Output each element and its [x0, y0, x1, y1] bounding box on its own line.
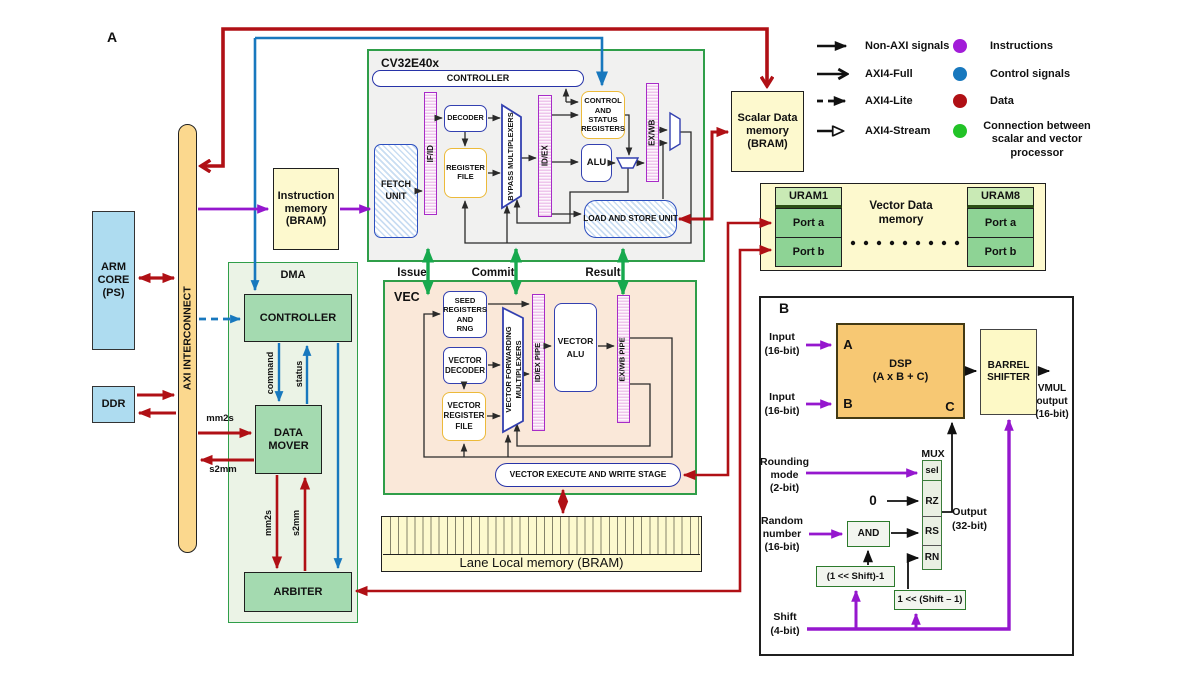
wire branch to VECTOR FORWARDING MUX left [507, 435, 509, 457]
MUX RN cell [922, 547, 942, 569]
wire purple Input to DSP B [806, 403, 831, 406]
wire CSR to CONTROLLER pill [565, 89, 567, 102]
MUX sel cell [922, 460, 942, 481]
wire purple Input to DSP A [806, 344, 831, 347]
DSP pin A [840, 337, 856, 353]
wire red mm2s AXI to DATA MOVER [198, 432, 251, 435]
VECTOR DECODER [443, 347, 487, 384]
label MUX [917, 448, 949, 461]
wire elbow to CSR [566, 101, 578, 103]
label 0 [865, 493, 881, 509]
URAM1 Port b [775, 237, 842, 267]
AXI INTERCONNECT bar [178, 124, 197, 553]
VECTOR REGISTER FILE [442, 392, 486, 441]
VECTOR ALU [554, 303, 597, 392]
label Result [580, 267, 626, 281]
legend dot Data [953, 94, 967, 108]
wire ALU to mux [612, 162, 615, 164]
LOAD AND STORE UNIT [584, 200, 677, 238]
wire branch to BYPASS bottom left [506, 206, 508, 243]
wire ID/EX PIPE to VECTOR ALU [546, 345, 551, 347]
legend label AXI4-Lite [865, 94, 985, 108]
wire LSU to right mux [663, 143, 667, 199]
ARM CORE (PS) [92, 211, 135, 350]
label Input 16-bit bottom [760, 391, 804, 418]
wire mux to EX/WB [638, 162, 644, 164]
URAM8 Port a [967, 208, 1034, 238]
label BYPASS MULTIPLEXERS [505, 107, 518, 206]
BARREL SHIFTER [980, 329, 1037, 415]
wire CSR to mux top [625, 115, 629, 155]
legend dot Instructions [953, 39, 967, 53]
MUX divider lines [922, 516, 942, 517]
SEED REGISTERS AND RNG [443, 291, 487, 338]
MUX RS cell [922, 518, 942, 545]
label Output (32-bit) [952, 506, 1008, 533]
label command [264, 343, 276, 403]
Scalar Data memory (BRAM) [731, 91, 804, 172]
wire red s2mm ARBITER to DATA MOVER [304, 478, 307, 571]
legend dot Connection [953, 124, 967, 138]
pipe EX/WB [646, 83, 659, 182]
legend label AXI4-Stream [865, 124, 985, 138]
pipe ID/EX [538, 95, 552, 217]
wire black MUX output to DSP C [942, 423, 952, 512]
green arrow Result [621, 249, 624, 294]
legend arrow AXI4-Lite [817, 100, 845, 103]
legend dot Control signals [953, 67, 967, 81]
legend label Data [990, 94, 1110, 108]
mux trapezoid VECTOR FORWARDING MULTIPLEXERS [503, 308, 523, 432]
label Shift (4-bit) [763, 611, 807, 638]
box 1 << (Shift - 1) [894, 590, 966, 610]
label status [293, 352, 305, 396]
VECTOR EXECUTE AND WRITE STAGE pill [495, 463, 681, 487]
wire DECODER to BYPASS [488, 117, 500, 119]
label Issue [392, 267, 432, 281]
wire BYPASS to ID/EX [521, 157, 536, 159]
dots between URAM1 and URAM8 [851, 241, 959, 245]
mux trapezoid BYPASS MULTIPLEXERS [502, 105, 521, 208]
green arrow Issue [426, 249, 429, 294]
pipe EX/WB PIPE [617, 295, 630, 423]
Instruction memory (BRAM) [273, 168, 339, 250]
DSP block [836, 323, 965, 419]
mux trapezoid writeback [670, 113, 680, 150]
DDR [92, 386, 135, 423]
wire purple Instruction memory to FETCH UNIT [340, 208, 370, 211]
wire black DSP to BARREL SHIFTER [966, 370, 976, 372]
Lane Local memory stripes [383, 517, 700, 555]
B section box [759, 296, 1074, 656]
Vector Data memory box [760, 183, 1046, 271]
label Commit [467, 267, 519, 281]
URAM1 header [775, 187, 842, 208]
wire REGISTER FILE to BYPASS [488, 172, 500, 174]
URAM8 Port b [967, 237, 1034, 267]
wire ID/EX to ALU [552, 161, 578, 163]
wire purple AXI to Instruction memory [198, 208, 268, 211]
label Input 16-bit top [760, 331, 804, 358]
AND gate box [847, 521, 890, 547]
legend arrow AXI4-Full [817, 73, 847, 76]
DMA DATA MOVER [255, 405, 322, 474]
wire purple Rounding mode to sel [806, 472, 917, 475]
wire red s2mm DATA MOVER to AXI [201, 459, 254, 462]
wire VEC forwarding loop [517, 384, 650, 446]
MUX column [922, 460, 942, 570]
wire blue CONTROLLER to ARBITER [337, 343, 339, 568]
DMA block [228, 262, 358, 623]
wire VFM to ID/EX PIPE [523, 373, 529, 375]
wire SEED to ID/EX PIPE [488, 303, 529, 305]
wire red mm2s DATA MOVER to ARBITER [276, 475, 279, 568]
wire red VEC pill to Port a [684, 223, 771, 475]
pipe IF/ID [424, 92, 437, 215]
wire right mux writeback to REGISTER FILE [465, 132, 691, 243]
wire red ARBITER to Port b [356, 250, 771, 591]
wire blue status DATA MOVER to CONTROLLER [306, 346, 308, 404]
wire red LSU to Scalar Data memory [679, 132, 728, 219]
MUX RZ cell [922, 487, 942, 516]
wire red pill to Lane Local memory [562, 490, 565, 513]
section label B [774, 299, 794, 317]
FETCH UNIT [374, 144, 418, 238]
wire blue dashed AXI to DMA CONTROLLER [199, 318, 240, 321]
label s2mm horizontal [203, 464, 243, 476]
ALU [581, 144, 612, 182]
wire black BARREL SHIFTER output [1038, 370, 1049, 372]
wire VECTOR ALU to EX/WB PIPE [598, 345, 614, 347]
DSP pin B [840, 396, 856, 412]
wire VEC writeback loop [424, 314, 672, 457]
CV32E40x block [367, 49, 705, 262]
wire DECODER to REGISTER FILE [464, 132, 466, 146]
wire red ARM CORE to AXI [139, 276, 174, 279]
DECODER [444, 105, 487, 132]
VEC block [383, 280, 697, 495]
wire ALU result forwarding to BYPASS [517, 168, 628, 223]
wire FETCH to IF/ID [418, 190, 422, 192]
pipe ID/EX PIPE [532, 294, 545, 431]
wire black AND to RS [891, 532, 918, 534]
wire branch to VECTOR REGISTER FILE [463, 444, 465, 457]
Lane Local memory (BRAM) [381, 516, 702, 572]
wire purple branch to (1 << Shift)-1 [855, 591, 858, 629]
REGISTER FILE [444, 148, 487, 198]
label VECTOR FORWARDING MULTIPLEXERS [503, 310, 524, 429]
URAM8 header [967, 187, 1034, 208]
legend label Connection between scalar and vector processor [975, 119, 1099, 161]
wire purple Shift bus to BARREL SHIFTER [807, 420, 1009, 629]
CONTROL AND STATUS REGISTERS [581, 91, 625, 139]
wire blue command CONTROLLER to DATA MOVER [278, 343, 280, 401]
CONTROLLER pill [372, 70, 584, 87]
label mm2s horizontal [200, 413, 240, 425]
wire blue top to CSR [255, 38, 602, 85]
green arrow Commit [514, 249, 517, 294]
DMA ARBITER [244, 572, 352, 612]
wire VECTOR DECODER to VRF [463, 385, 465, 389]
wire VRF to VFM [487, 415, 500, 417]
box (1 << Shift)-1 [816, 566, 895, 587]
section label A [100, 28, 124, 46]
wire red AXI to Scalar Data memory top [201, 29, 767, 166]
legend label Control signals [990, 67, 1110, 81]
Vector Data memory label [845, 198, 957, 230]
wire IF/ID to DECODER [437, 117, 442, 119]
Lane Local memory label [381, 555, 702, 571]
legend arrow Non-AXI signals [817, 45, 846, 48]
label s2mm vertical [290, 503, 302, 543]
wire EX/WB to right mux [659, 129, 667, 131]
wire purple branch to 1 << (Shift - 1) [915, 614, 918, 629]
DMA CONTROLLER [244, 294, 352, 342]
label Random number [757, 515, 807, 554]
wire ID/EX to LSU [552, 213, 581, 215]
URAM1 Port a [775, 208, 842, 238]
wire red AXI to DDR [139, 412, 176, 415]
wire blue top to DMA CONTROLLER [254, 38, 257, 290]
wire purple Random number to AND [809, 533, 842, 536]
wire black 0 to RZ [887, 500, 918, 502]
DSP pin C [942, 399, 958, 415]
legend label Non-AXI signals [865, 39, 985, 53]
label Rounding mode [757, 456, 812, 495]
wire ID/EX to CSR [552, 114, 578, 116]
legend label AXI4-Full [865, 67, 985, 81]
mux trapezoid after ALU [617, 158, 638, 168]
wire VECTOR DECODER to VFM [488, 364, 500, 366]
label mm2s vertical [262, 503, 274, 543]
wire black shift box to AND [867, 551, 869, 565]
legend arrow AXI4-Stream [817, 130, 843, 133]
legend label Instructions [990, 39, 1110, 53]
label VMUL output [1030, 381, 1074, 421]
wire red DDR to AXI [137, 394, 174, 397]
wire black shift box to RN [908, 558, 918, 589]
